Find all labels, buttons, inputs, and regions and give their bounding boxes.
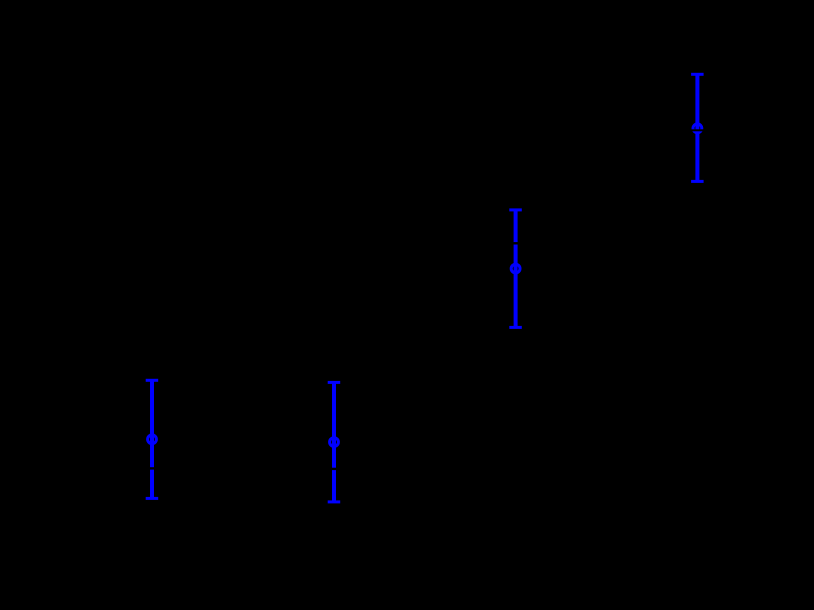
error bar 2 (x=334) <box>328 382 341 502</box>
black cut 3 <box>509 242 523 244</box>
error bar 4 (x=697.4) <box>691 74 704 181</box>
marker point 4 <box>693 124 702 133</box>
marker point 1 <box>148 435 157 444</box>
black cut 1 <box>145 467 159 469</box>
marker point 3 <box>511 264 520 273</box>
black cut 4 <box>690 129 704 131</box>
error bar 1 (x=152) <box>146 380 159 498</box>
black cut 2 <box>327 468 341 470</box>
error bar 3 (x=515.6) <box>509 210 522 328</box>
marker point 2 <box>330 438 339 447</box>
